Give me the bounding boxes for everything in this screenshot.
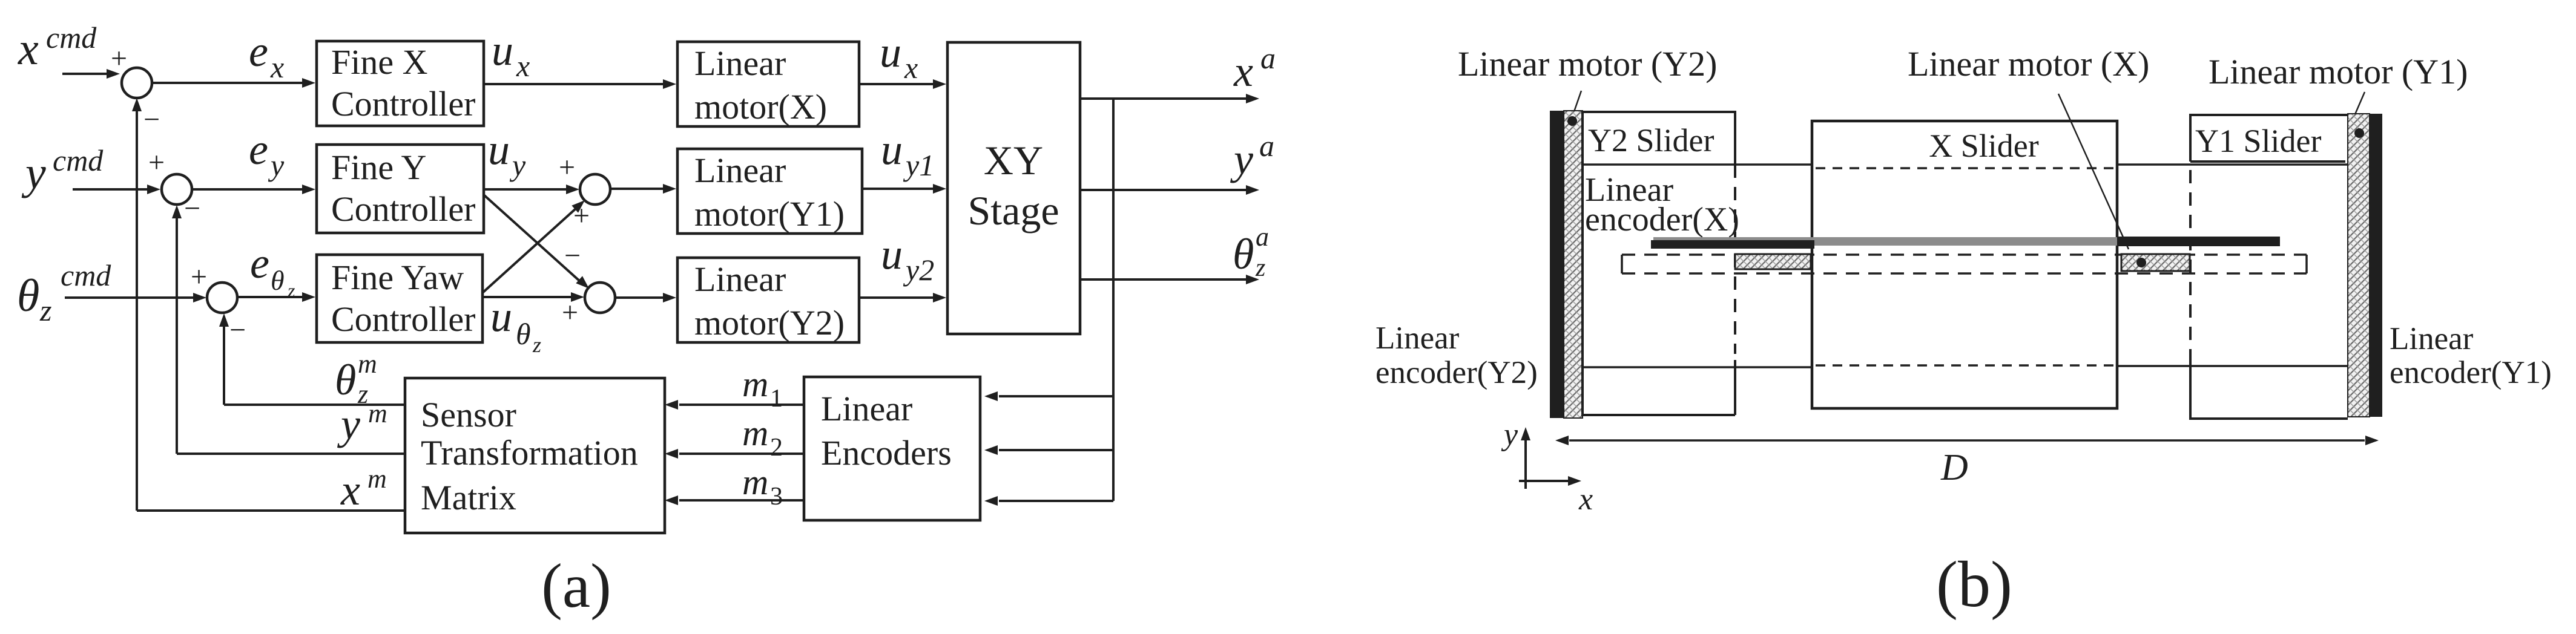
block Linear Encoders: [804, 377, 980, 520]
dot on Y1 motor bar: [2354, 128, 2364, 138]
Y2 linear encoder hatched bar: [1564, 111, 1583, 418]
svg-text:D: D: [1940, 447, 1968, 488]
wire x^m feedback from STM to S1: [132, 98, 405, 511]
summing junction S3: [207, 283, 237, 313]
label e_x: [249, 27, 284, 84]
svg-text:u: u: [881, 125, 903, 174]
block Sensor Transformation Matrix: [405, 378, 665, 533]
Y2 Slider box outline: [1583, 111, 1735, 416]
beam top edge line solid left: [1583, 163, 1812, 166]
svg-text:Sensor: Sensor: [421, 395, 516, 434]
wire u_x from Fine X Controller to Linear motor(X): [484, 79, 676, 89]
minus sign below S2: [184, 192, 200, 224]
wire output theta_z^a: [1080, 275, 1259, 284]
svg-text:m: m: [742, 364, 768, 404]
svg-text:m: m: [368, 399, 387, 428]
svg-text:+: +: [562, 296, 578, 328]
svg-text:z: z: [287, 279, 295, 301]
Y1 linear encoder hatched bar: [2348, 114, 2370, 417]
wire feedback into Linear Encoders m1 side: [984, 391, 1113, 401]
svg-text:y: y: [509, 148, 526, 182]
minus sign upper-left of S5: [564, 240, 581, 272]
dot on Y2 motor bar: [1567, 116, 1577, 126]
svg-text:(a): (a): [541, 551, 611, 621]
beam bottom edge line solid left: [1583, 366, 1812, 368]
hatched carriage block left: [1735, 254, 1811, 269]
svg-text:y1: y1: [903, 148, 934, 182]
svg-text:X Slider: X Slider: [1929, 128, 2039, 164]
label m_1: [742, 364, 783, 413]
svg-text:(b): (b): [1936, 549, 2012, 621]
svg-text:Transformation: Transformation: [421, 433, 638, 472]
beam bottom edge line solid right: [2117, 365, 2348, 367]
svg-text:Fine Yaw: Fine Yaw: [331, 258, 464, 297]
summing junction S1: [122, 68, 152, 98]
svg-text:x: x: [270, 50, 284, 84]
label u_y: [488, 125, 526, 182]
svg-text:x: x: [1233, 47, 1253, 96]
label y^cmd input: [21, 143, 104, 198]
dimension line D with double arrows: [1555, 436, 2379, 445]
label Linear motor (Y1): [2209, 52, 2468, 91]
svg-text:encoder(X): encoder(X): [1585, 201, 1739, 238]
wire u_theta horizontal into summing junction S5: [483, 292, 584, 302]
caption (a): [541, 551, 611, 621]
label Linear motor (Y2): [1458, 44, 1717, 83]
wire output y^a: [1080, 185, 1259, 195]
plus sign at S2: [148, 146, 165, 178]
svg-text:a: a: [1256, 222, 1269, 252]
plus sign lower-left of S4: [573, 200, 590, 232]
svg-text:encoder(Y2): encoder(Y2): [1375, 355, 1538, 390]
block XY Stage: [947, 42, 1080, 334]
label u_y1: [881, 125, 934, 182]
svg-text:Controller: Controller: [331, 84, 475, 123]
svg-text:m: m: [742, 413, 768, 453]
svg-text:x: x: [904, 51, 918, 85]
svg-text:e: e: [250, 239, 269, 287]
svg-text:+: +: [573, 200, 590, 232]
label Y2 Slider: [1588, 122, 1715, 158]
leader line from Linear motor (Y2) label to Y2 motor bar: [1572, 91, 1581, 119]
svg-text:y: y: [1501, 417, 1518, 452]
Y2 linear motor black bar: [1550, 111, 1564, 418]
wire from Linear motor(Y2) to XY Stage: [859, 293, 946, 302]
svg-text:XY: XY: [984, 137, 1043, 183]
wire theta^cmd into summing junction S3: [65, 293, 206, 302]
beam top edge line solid right: [2117, 163, 2348, 166]
label m_3: [742, 462, 783, 511]
svg-text:−: −: [184, 192, 200, 224]
svg-text:m: m: [358, 349, 377, 379]
wire feedback into Linear Encoders m2 side: [984, 445, 1113, 455]
wire from Linear motor(X) to XY Stage: [859, 79, 946, 89]
Y1 linear motor black bar: [2370, 114, 2382, 417]
label theta_z^m: [335, 349, 377, 409]
svg-text:cmd: cmd: [53, 143, 104, 177]
wire e_y from S2 to Fine Y Controller: [192, 185, 315, 194]
svg-text:θ: θ: [1233, 230, 1254, 278]
wire y^cmd into summing junction S2: [73, 185, 160, 194]
label D: [1940, 447, 1968, 488]
wire m3 from Linear Encoders to Sensor Transformation Matrix: [665, 495, 804, 505]
svg-text:θ: θ: [17, 270, 39, 321]
svg-text:Linear motor (X): Linear motor (X): [1908, 44, 2149, 83]
svg-text:Linear: Linear: [694, 151, 786, 190]
label theta_z^a: [1233, 222, 1269, 282]
svg-text:u: u: [880, 28, 901, 76]
wire m1 from Linear Encoders to Sensor Transformation Matrix: [665, 400, 804, 410]
label e_theta_z: [250, 239, 295, 301]
svg-text:2: 2: [770, 434, 783, 462]
svg-text:Matrix: Matrix: [421, 478, 516, 517]
label x^cmd input: [18, 21, 97, 74]
wire u_y diagonal down into summing junction S5: [484, 195, 589, 289]
svg-text:−: −: [229, 314, 246, 346]
wire e_theta from S3 to Fine Yaw Controller: [237, 292, 315, 302]
dashed X motor stator rectangle: [1622, 255, 2307, 273]
svg-text:x: x: [1578, 482, 1593, 517]
label u_x controller output: [492, 26, 530, 83]
svg-text:Linear motor (Y2): Linear motor (Y2): [1458, 44, 1717, 83]
label x axis: [1578, 482, 1593, 517]
block X Slider box: [1812, 121, 2117, 408]
svg-text:Linear: Linear: [1375, 321, 1460, 356]
svg-text:Y2 Slider: Y2 Slider: [1588, 122, 1715, 158]
wire u_theta diagonal up into summing junction S4: [483, 200, 585, 293]
svg-text:x: x: [18, 24, 39, 74]
X linear motor black bar right: [2117, 237, 2280, 246]
svg-text:1: 1: [770, 385, 783, 413]
svg-text:e: e: [249, 125, 268, 174]
wire u_y horizontal into summing junction S4: [484, 185, 579, 194]
label Y1 Slider: [2195, 123, 2322, 159]
label Linear encoder(X): [1585, 171, 1739, 238]
svg-text:u: u: [881, 230, 903, 278]
label u_theta_z: [490, 292, 541, 357]
wire y^m feedback from STM to S2: [172, 205, 405, 454]
label e_y: [249, 125, 285, 182]
label Linear encoder(Y1): [2390, 321, 2552, 390]
summing junction S5: [585, 283, 615, 313]
svg-text:cmd: cmd: [61, 258, 111, 292]
svg-text:θ: θ: [335, 356, 356, 404]
label y^a: [1230, 129, 1274, 183]
X linear encoder gray rail: [1653, 237, 2117, 246]
minus sign below S1: [143, 103, 160, 136]
svg-text:−: −: [143, 103, 160, 136]
block Linear motor(Y2): [677, 258, 859, 342]
wire u_y1 from S4 to Linear motor(Y1): [610, 184, 676, 194]
label y axis: [1501, 417, 1518, 452]
label m_2: [742, 413, 783, 462]
label Linear encoder(Y2): [1375, 321, 1538, 390]
wire x^cmd into summing junction S1: [62, 69, 120, 79]
hatched carriage block right with dot: [2121, 254, 2190, 271]
svg-text:y2: y2: [903, 253, 934, 287]
block Fine X Controller: [317, 41, 484, 126]
label u_x motor output: [880, 28, 918, 85]
svg-text:y: y: [21, 148, 46, 198]
wire feedback into Linear Encoders m3 side: [984, 496, 1113, 506]
svg-text:Controller: Controller: [331, 189, 475, 229]
plus sign at S1: [111, 42, 127, 74]
svg-text:Linear: Linear: [694, 260, 786, 299]
plus sign lower-left of S5: [562, 296, 578, 328]
beam bottom edge line dashed across X Slider: [1816, 364, 2113, 367]
block Linear motor(Y1): [677, 149, 862, 234]
wire output x^a: [1080, 94, 1259, 103]
svg-text:x: x: [516, 49, 530, 83]
block Fine Y Controller: [317, 145, 484, 233]
svg-text:Controller: Controller: [331, 299, 475, 339]
summing junction S4: [580, 174, 610, 204]
svg-text:motor(Y1): motor(Y1): [694, 194, 845, 234]
svg-text:Linear: Linear: [2390, 321, 2474, 356]
coordinate axis y arrow: [1521, 427, 1530, 489]
block Fine Yaw Controller: [317, 255, 483, 342]
svg-text:x: x: [340, 466, 360, 514]
wire e_x from S1 to Fine X Controller: [152, 78, 315, 88]
minus sign below S3: [229, 314, 246, 346]
svg-text:Fine X: Fine X: [331, 42, 428, 82]
svg-text:Encoders: Encoders: [821, 433, 952, 472]
wire from Linear motor(Y1) to XY Stage: [862, 184, 946, 194]
svg-text:Linear: Linear: [821, 389, 912, 428]
label x^a: [1233, 41, 1276, 96]
svg-text:z: z: [532, 333, 541, 357]
svg-text:Linear motor (Y1): Linear motor (Y1): [2209, 52, 2468, 91]
svg-text:u: u: [492, 26, 513, 74]
label u_y2: [881, 230, 934, 287]
Y1 Slider box outline: [2190, 114, 2348, 420]
svg-text:e: e: [249, 27, 268, 76]
summing junction S2: [162, 174, 192, 204]
svg-text:−: −: [564, 240, 581, 272]
svg-text:Linear: Linear: [694, 44, 786, 83]
svg-text:u: u: [490, 292, 512, 341]
svg-text:Fine Y: Fine Y: [331, 148, 426, 187]
caption (b): [1936, 549, 2012, 621]
block Linear motor(X): [677, 42, 859, 126]
svg-text:a: a: [1259, 129, 1274, 163]
svg-text:encoder(Y1): encoder(Y1): [2390, 355, 2552, 390]
svg-text:θ: θ: [271, 265, 285, 296]
svg-text:θ: θ: [516, 317, 531, 351]
label X Slider: [1929, 128, 2039, 164]
svg-text:cmd: cmd: [46, 21, 97, 54]
wire feedback vertical from outputs down: [1112, 99, 1115, 501]
label theta_z^cmd input: [17, 258, 111, 327]
svg-text:a: a: [1260, 41, 1276, 75]
svg-text:u: u: [488, 125, 510, 174]
leader line from Linear motor (Y1) label to Y1 motor bar: [2349, 92, 2365, 128]
svg-text:z: z: [1255, 254, 1265, 282]
svg-text:+: +: [111, 42, 127, 74]
svg-text:+: +: [148, 146, 165, 178]
wire theta_z^m feedback from STM to S3: [219, 313, 405, 405]
plus sign at S3: [191, 261, 207, 293]
svg-text:motor(X): motor(X): [694, 87, 827, 126]
X encoder scale black bar left: [1651, 240, 1814, 249]
wire m2 from Linear Encoders to Sensor Transformation Matrix: [665, 449, 804, 459]
label Linear motor (X): [1908, 44, 2149, 83]
coordinate axis x arrow: [1519, 476, 1581, 486]
beam top edge line dashed across X Slider: [1816, 167, 2113, 169]
plus sign upper-left of S4: [559, 151, 575, 183]
svg-text:+: +: [559, 151, 575, 183]
wire u_y2 from S5 to Linear motor(Y2): [615, 293, 676, 302]
label x^m: [340, 464, 387, 514]
svg-text:motor(Y2): motor(Y2): [694, 303, 845, 342]
svg-text:Stage: Stage: [967, 188, 1059, 234]
svg-text:y: y: [268, 148, 285, 182]
svg-text:m: m: [367, 464, 387, 494]
svg-text:Y1 Slider: Y1 Slider: [2195, 123, 2322, 159]
svg-text:3: 3: [770, 483, 783, 511]
svg-text:+: +: [191, 261, 207, 293]
leader line from Linear motor (X) label to X motor bar: [2058, 94, 2129, 249]
label y^m: [337, 399, 387, 448]
svg-text:z: z: [39, 293, 51, 327]
svg-text:m: m: [742, 462, 768, 502]
